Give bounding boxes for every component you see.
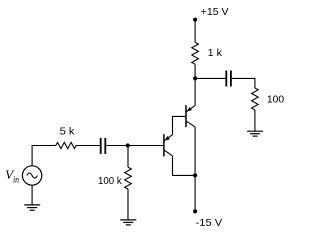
- ground (below Vin): [24, 205, 40, 210]
- wire 100 to ground: [254, 110, 256, 131]
- wire Vin top to input rail corner: [32, 146, 56, 166]
- svg-text:5 k: 5 k: [60, 127, 76, 138]
- transistor Q1 (PNP, input): [164, 134, 173, 156]
- svg-text:+15 V: +15 V: [201, 7, 229, 18]
- ground (below 100): [247, 131, 263, 136]
- wire node C to -15V terminal: [194, 175, 196, 211]
- terminal -15 V: [193, 209, 197, 213]
- wire node A to Q1 base: [128, 145, 164, 147]
- wire node A down to 100k: [127, 146, 129, 168]
- wire 100k to ground: [127, 189, 129, 220]
- wire 5k to C1: [76, 145, 100, 147]
- wire Vin bottom to ground: [31, 185, 33, 205]
- wire Q1 emitter up to Q2 base: [173, 116, 186, 134]
- svg-text:1 k: 1 k: [208, 48, 223, 59]
- transistor Q2 (PNP, output): [186, 105, 195, 127]
- svg-text:100: 100: [267, 94, 285, 105]
- resistor R3 1 k (vertical): [192, 42, 199, 64]
- resistor R4 100 (vertical): [252, 88, 259, 110]
- wire +15V to R3: [194, 20, 196, 43]
- terminal +15 V: [193, 18, 197, 22]
- node C (collectors junction dot): [193, 173, 197, 177]
- node B (emitter/output junction dot): [193, 76, 197, 80]
- svg-text:in: in: [13, 175, 19, 185]
- resistor R1 5 k (horizontal): [56, 142, 76, 148]
- ground (below 100k): [120, 220, 136, 225]
- node A (base junction dot): [126, 143, 130, 147]
- wire Q1 collector down and right to node C: [173, 156, 196, 176]
- svg-text:100 k: 100 k: [98, 176, 122, 187]
- wire Q2 collector down to node C: [194, 127, 196, 175]
- capacitor C1 (input coupling): [101, 138, 106, 154]
- svg-text:-15 V: -15 V: [196, 218, 223, 229]
- wire C1 to node A: [106, 145, 128, 147]
- wire node B to C2: [195, 77, 225, 79]
- capacitor C2 (output coupling): [226, 71, 231, 87]
- wire C2 to 100 resistor: [232, 78, 255, 88]
- wire Q2 emitter up to node B: [194, 78, 196, 105]
- voltage source Vin: [22, 166, 41, 185]
- resistor R2 100 k (vertical): [125, 167, 132, 189]
- wire 1k to node B: [194, 64, 196, 78]
